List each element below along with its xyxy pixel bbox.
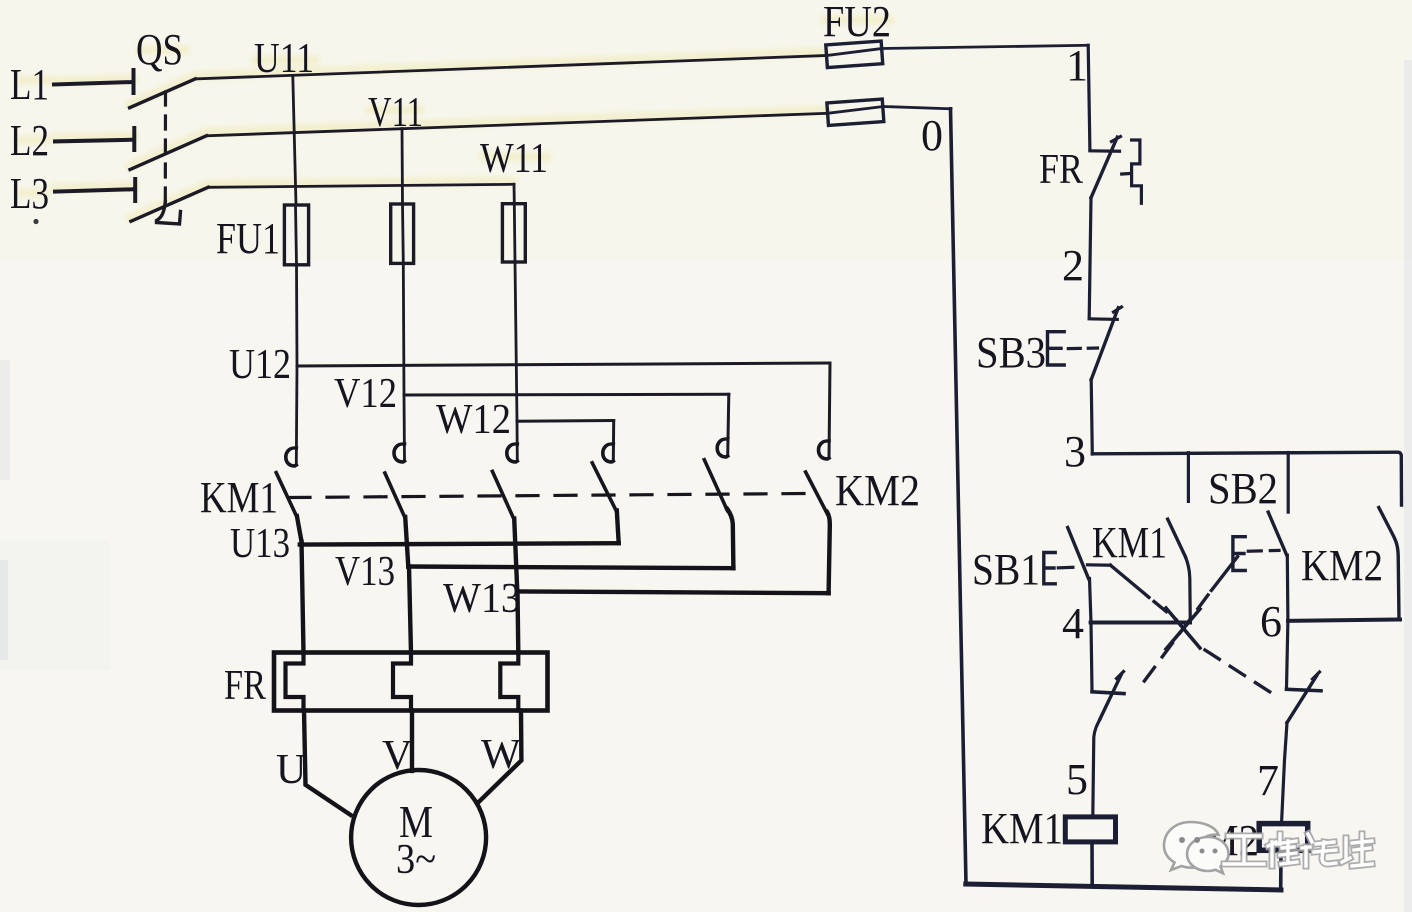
switch QS blade 2	[130, 136, 207, 170]
button SB3 actuator E	[1048, 332, 1065, 365]
button SB1 NC blade serif	[1313, 672, 1320, 679]
wire contact 2 to V13	[405, 517, 408, 567]
svg-text:KM1: KM1	[981, 804, 1063, 853]
contactor KM2 main contact 4 blade	[592, 463, 617, 512]
wire motor lead U	[304, 711, 351, 816]
button SB2 NC blade	[1100, 675, 1121, 719]
wire V12 bus	[404, 393, 729, 397]
wire U11 bus	[195, 56, 826, 79]
FR trip actuator bracket	[1132, 140, 1142, 203]
wire SB1 to node 4	[1090, 579, 1092, 624]
fuse FU1-a wire through	[296, 205, 297, 265]
wire W12 drop to KM2 contact 4	[612, 421, 615, 462]
wire W column upper	[513, 184, 516, 203]
svg-text:4: 4	[1062, 599, 1084, 648]
wire contact 5 to V13	[727, 509, 733, 568]
coil KM1 body	[1065, 817, 1115, 842]
button SB3 blade serif	[1114, 307, 1122, 312]
svg-text:KM1: KM1	[200, 473, 278, 522]
svg-text:6: 6	[1260, 597, 1282, 646]
contactor KM1 main contact 2 top hook	[394, 444, 405, 462]
svg-text:3: 3	[1064, 427, 1086, 476]
wire U13 bus	[300, 543, 619, 544]
wire bottom rail 0	[966, 884, 1281, 890]
contactor KM1 main contact 1 top hook	[286, 448, 297, 466]
watermark logo chat bubbles	[1164, 822, 1229, 873]
svg-text:KM2: KM2	[1301, 541, 1383, 590]
interlock link SB1 tick	[1088, 563, 1111, 567]
scan yellow halo along top lines	[20, 20, 890, 218]
svg-text:SB1: SB1	[972, 545, 1040, 594]
interlock X stroke A	[1166, 608, 1200, 648]
svg-text:U11: U11	[254, 36, 314, 82]
FR NC contact blade	[1091, 137, 1117, 198]
interlock link SB2 solid diagonal	[1211, 557, 1237, 591]
fuse FU1-b wire through	[401, 204, 405, 263]
contactor KM1 main contact 2 blade	[385, 473, 405, 518]
wire contact 4 to U13	[617, 511, 619, 544]
contactor KM1 main contact 1 blade	[276, 473, 297, 517]
QS pole 2 fixed contact tick	[132, 128, 136, 150]
contactor KM1 aux NO blade	[1168, 519, 1186, 557]
contactor KM2 main contact 4 top hook	[603, 444, 614, 462]
contactor KM2 aux NO blade	[1379, 508, 1399, 620]
svg-text:KM1: KM1	[1092, 518, 1167, 567]
wire SB1 NC to node 7	[1282, 723, 1288, 824]
svg-text:W12: W12	[436, 397, 511, 443]
svg-text:V11: V11	[368, 90, 423, 136]
svg-text:V12: V12	[334, 371, 397, 417]
svg-text:5: 5	[1066, 755, 1088, 804]
fuse FU2-a body	[826, 41, 883, 68]
FR trip actuator dash	[1122, 172, 1131, 176]
button SB3 blade	[1091, 308, 1118, 380]
QS pole 3 fixed contact tick	[133, 179, 137, 201]
FR heater element U	[286, 653, 304, 711]
contactor KM2 main contact 6 blade	[806, 472, 828, 513]
wire node 3 bus	[1092, 452, 1401, 505]
wire L1 lead	[54, 82, 133, 85]
svg-text:W13: W13	[443, 576, 521, 622]
wire rail 0 vertical	[951, 109, 967, 884]
wire SB2 stub	[1287, 453, 1290, 513]
wire W13 bus	[517, 591, 828, 593]
interlock X stroke B	[1166, 609, 1200, 649]
wire node 6 bus	[1288, 620, 1400, 621]
contactor KM1 main contact 3 top hook	[507, 444, 518, 462]
motor M1 circle	[351, 770, 486, 905]
wire KM1 aux to node 4	[1185, 557, 1190, 623]
wire W12 bus	[517, 419, 614, 423]
wire V column to contact 2	[403, 395, 406, 461]
svg-text:L1: L1	[10, 60, 49, 109]
interlock link SB1 solid diagonal	[1110, 565, 1149, 597]
wire U column to U12	[295, 265, 298, 366]
svg-text:2: 2	[1062, 241, 1084, 290]
svg-text:U: U	[276, 747, 306, 793]
interlock link SB2 dashed to left NC	[1137, 595, 1208, 691]
wire W phase down to FR	[515, 591, 520, 653]
FR NC contact fixed tick	[1090, 149, 1120, 153]
fuse FU2-b body	[827, 99, 884, 125]
svg-text:7: 7	[1257, 756, 1279, 805]
button SB1 NC fixed tick	[1287, 689, 1322, 691]
switch QS blade 1	[130, 79, 196, 108]
wire motor lead W	[478, 711, 521, 803]
fuse FU1-c body	[502, 204, 525, 262]
contactor KM2 main contact 5 top hook	[717, 439, 728, 457]
wire contact 6 to W13	[827, 512, 830, 593]
wire V11 bus	[207, 113, 828, 136]
wire contact 3 to W13	[514, 519, 517, 592]
wire V phase down to FR	[409, 567, 411, 654]
wire U12 drop to KM2 contact 6	[829, 363, 830, 458]
button SB1 NC blade	[1287, 676, 1317, 723]
svg-text:FU1: FU1	[216, 214, 280, 263]
wire L2 lead	[55, 140, 134, 142]
svg-text:W: W	[481, 732, 521, 778]
wire W column to contact 3	[516, 421, 519, 461]
wire coil KM1 to bottom rail	[1090, 842, 1094, 885]
FR heater element V	[393, 653, 411, 711]
svg-text:L2: L2	[10, 116, 49, 165]
interlock link SB1 dashed diagonal	[1154, 602, 1176, 620]
stray ink dot	[33, 219, 38, 224]
contactor KM2 main contact 5 blade	[704, 460, 727, 511]
wire node 4 down to SB2 NC	[1091, 623, 1092, 691]
thermal relay FR box	[274, 653, 548, 711]
wire contact 1 to U13	[297, 516, 302, 542]
fuse FU2-a wire through	[827, 49, 883, 56]
svg-text:KM2: KM2	[835, 466, 920, 515]
button SB3 actuator dashes	[1068, 346, 1097, 350]
wire U12 bus	[297, 363, 830, 366]
svg-text:1: 1	[1066, 41, 1088, 90]
wire fuse FU2-a to control rail 1	[882, 45, 1088, 48]
wire motor lead V	[410, 711, 414, 771]
contactor KM2 main contact 6 top hook	[819, 441, 830, 459]
contactor KM1 main contact 3 blade	[492, 471, 514, 519]
wire V column to V12	[402, 263, 406, 395]
wire coil KM2 to bottom rail	[1279, 850, 1283, 890]
button SB2 blade	[1268, 512, 1287, 555]
fuse FU1-c wire through	[513, 204, 517, 262]
wire node 2 segment	[1089, 198, 1091, 318]
wire U column to contact 1	[295, 366, 299, 465]
button SB3 fixed tick	[1089, 317, 1117, 321]
FR NC contact blade serif	[1112, 137, 1121, 142]
wire rail 1 from FU2 to FR contact	[1088, 45, 1090, 149]
wire V13 bus	[408, 567, 733, 569]
wire node 6 down to SB1 NC	[1287, 621, 1288, 688]
coil KM2 body	[1259, 824, 1308, 851]
button SB2 NC blade serif	[1117, 672, 1124, 679]
button SB1 actuator E	[1044, 553, 1055, 584]
QS pole 1 fixed contact tick	[132, 70, 136, 93]
svg-text:U12: U12	[229, 342, 291, 388]
wire SB2 NC to node 5	[1093, 719, 1100, 817]
watermark text gong kong lun tan embossed	[1224, 834, 1372, 866]
svg-text:FR: FR	[1039, 147, 1083, 193]
fuse FU1-b body	[391, 204, 414, 263]
button SB1 blade	[1068, 528, 1089, 579]
wire SB2 to node 6	[1286, 555, 1290, 621]
svg-text:FR: FR	[224, 663, 266, 709]
wire node 3 segment	[1091, 380, 1092, 454]
QS link handle hook	[157, 202, 181, 224]
svg-text:QS: QS	[136, 25, 183, 74]
wire U phase down to FR	[302, 542, 304, 654]
wire V column upper	[401, 129, 404, 205]
wire W column to W12	[515, 262, 517, 421]
svg-text:W11: W11	[480, 136, 548, 182]
wire fuse FU2-b to rail 0	[883, 107, 951, 109]
switch QS blade 3	[131, 187, 208, 221]
KM1-KM2 mechanical link dashed line	[289, 494, 807, 498]
svg-text:3~: 3~	[396, 837, 436, 883]
svg-text:L3: L3	[10, 169, 49, 218]
wire node 4 bus	[1091, 621, 1190, 625]
button SB2 actuator dashes	[1248, 549, 1279, 553]
wire U column upper	[293, 76, 296, 205]
wire KM1 aux stub	[1187, 453, 1190, 502]
fuse FU1-a body	[284, 205, 308, 265]
QS mechanical link dashed line	[164, 92, 167, 206]
wire W11 bus	[208, 184, 514, 187]
svg-text:SB2: SB2	[1208, 464, 1278, 513]
svg-text:SB3: SB3	[976, 328, 1046, 377]
interlock link SB1 dashed to right NC	[1205, 650, 1270, 692]
wire L3 lead	[55, 189, 135, 191]
svg-text:FU2: FU2	[823, 0, 891, 46]
button SB1 actuator dash	[1058, 566, 1073, 570]
fuse FU2-b wire through	[828, 107, 884, 114]
button SB2 NC fixed tick	[1092, 692, 1124, 694]
FR heater element W	[500, 653, 518, 711]
svg-text:V13: V13	[335, 549, 395, 595]
button SB2 actuator E	[1233, 537, 1245, 571]
svg-text:0: 0	[921, 111, 943, 160]
svg-text:U13: U13	[230, 521, 290, 567]
wire V12 drop to KM2 contact 5	[728, 394, 729, 456]
